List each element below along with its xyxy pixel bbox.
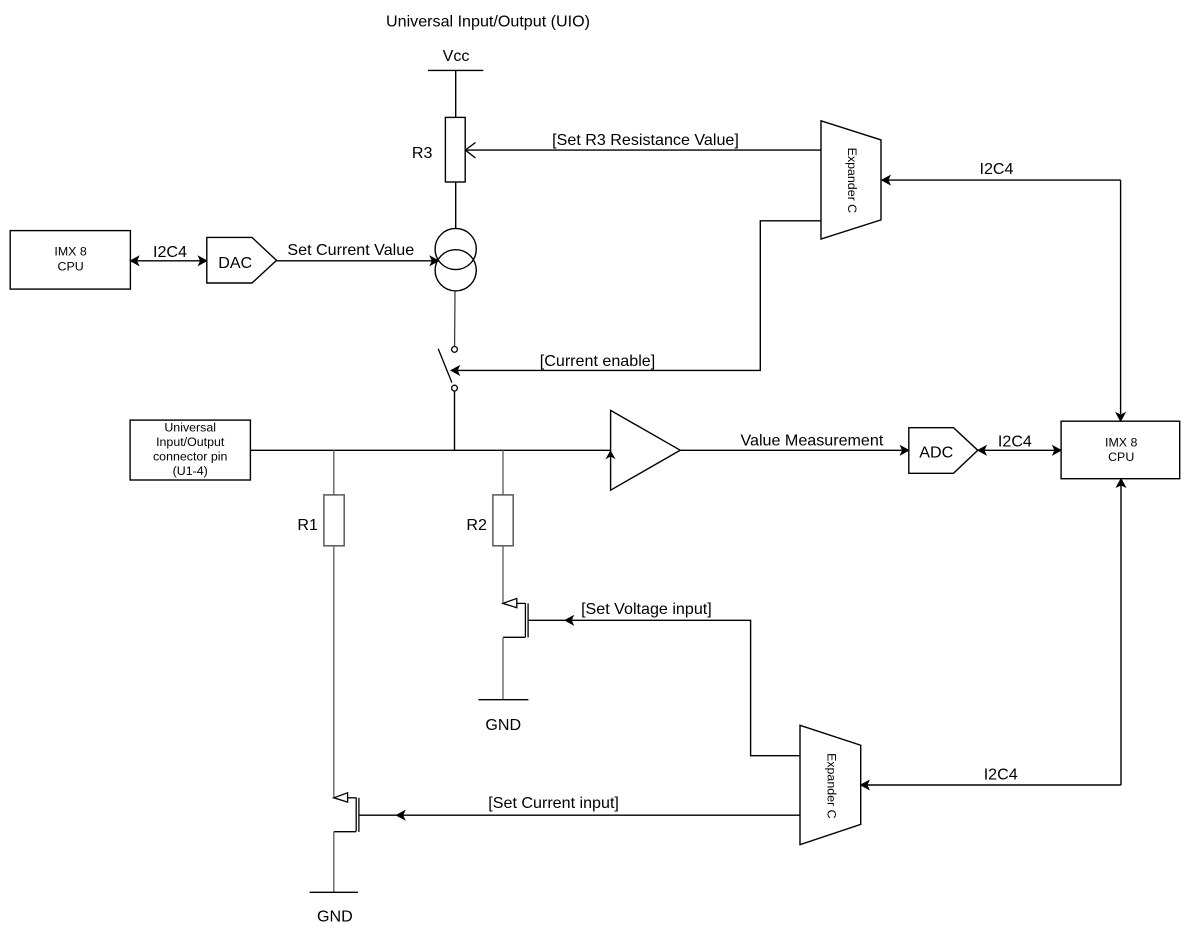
expander C (top) — [821, 121, 881, 239]
wire switch to bus — [454, 391, 456, 450]
wire R3 to current source — [455, 182, 457, 229]
current source I1 (two overlapping circles) — [435, 228, 476, 269]
svg-text:I2C4: I2C4 — [153, 243, 187, 261]
transistor Q2 (MOSFET) — [503, 598, 565, 637]
svg-text:I2C4: I2C4 — [980, 160, 1014, 178]
wire [Current enable] — [457, 221, 821, 371]
wire Set Current Value — [277, 260, 433, 262]
svg-text:GND: GND — [317, 908, 353, 926]
op-amp U2 — [611, 410, 681, 490]
wire I2C4 CPU-DAC (double arrow) — [137, 260, 201, 262]
wire R1 to Q1 drain — [333, 546, 335, 798]
svg-text:[Set Voltage input]: [Set Voltage input] — [581, 600, 712, 618]
wire I2C4 to expander C bottom — [867, 485, 1121, 785]
R3 wiper open arrow — [465, 143, 475, 159]
svg-text:DAC: DAC — [218, 254, 252, 272]
wire Q1 source to GND — [333, 832, 335, 893]
wire current source to switch — [454, 291, 456, 347]
svg-text:Set Current Value: Set Current Value — [287, 241, 414, 259]
resistor R3 (potentiometer body) — [445, 117, 465, 182]
main bus wire — [250, 449, 610, 451]
ground (R2 branch) — [478, 699, 528, 701]
svg-text:Vcc: Vcc — [443, 47, 470, 65]
DAC pentagon — [207, 237, 277, 283]
svg-text:(U1-4): (U1-4) — [173, 464, 208, 478]
svg-text:CPU: CPU — [58, 260, 84, 274]
svg-text:CPU: CPU — [1108, 450, 1134, 464]
wire Vcc to R3 — [455, 70, 457, 117]
ADC pentagon — [909, 428, 978, 474]
svg-text:I2C4: I2C4 — [984, 766, 1018, 784]
svg-text:GND: GND — [485, 716, 521, 734]
wire Q2 source to GND — [502, 637, 504, 699]
svg-text:R3: R3 — [412, 144, 433, 162]
Universal Input/Output connector pin box — [130, 420, 250, 480]
svg-text:[Set R3 Resistance Value]: [Set R3 Resistance Value] — [552, 131, 739, 149]
wire I2C4 to expander C top — [888, 180, 1121, 414]
Vcc rail — [428, 69, 483, 71]
wire R2 to Q2 drain — [502, 546, 504, 604]
svg-text:Expander C: Expander C — [845, 148, 859, 213]
svg-text:I2C4: I2C4 — [998, 432, 1032, 450]
switch S1 — [452, 347, 458, 353]
svg-text:Input/Output: Input/Output — [156, 435, 225, 449]
resistor R1 — [324, 495, 344, 546]
svg-text:R1: R1 — [297, 516, 318, 534]
svg-text:IMX 8: IMX 8 — [54, 245, 86, 259]
wire [Set R3 Resistance Value] — [465, 149, 821, 151]
expander C (bottom) — [800, 725, 861, 844]
IMX 8 CPU box (right) — [1061, 421, 1180, 479]
svg-text:ADC: ADC — [919, 443, 953, 461]
wire [Set Current input] — [403, 814, 801, 816]
svg-text:connector pin: connector pin — [153, 450, 228, 464]
wire Value Measurement — [680, 449, 903, 451]
svg-text:[Set Current input]: [Set Current input] — [488, 794, 619, 812]
ground (R1 branch) — [310, 891, 358, 893]
transistor Q1 (MOSFET) — [334, 793, 397, 832]
svg-text:R2: R2 — [466, 516, 487, 534]
IMX 8 CPU box (left) — [10, 231, 130, 290]
svg-text:Value Measurement: Value Measurement — [740, 432, 883, 450]
wire [Set Voltage input] — [571, 620, 800, 755]
svg-text:Universal Input/Output (UIO): Universal Input/Output (UIO) — [386, 13, 590, 31]
resistor R2 — [493, 495, 513, 546]
svg-text:Expander C: Expander C — [824, 753, 838, 818]
svg-text:Universal: Universal — [164, 421, 216, 435]
svg-text:[Current enable]: [Current enable] — [540, 352, 655, 370]
op-amp U2 input arrow — [607, 451, 615, 458]
svg-text:IMX 8: IMX 8 — [1105, 435, 1137, 449]
wire bus to R1 — [333, 450, 335, 495]
wire bus to R2 — [502, 450, 504, 495]
wire I2C4 ADC-CPU (double arrow) — [984, 449, 1055, 451]
